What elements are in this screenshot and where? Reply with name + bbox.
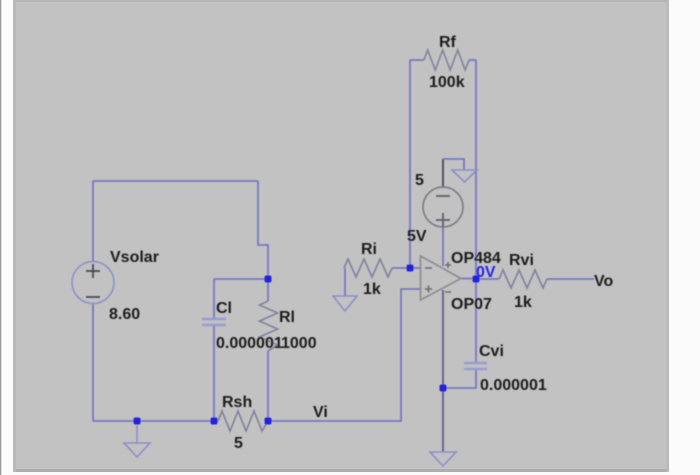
capacitor Cvi (464, 363, 487, 369)
wire: 5V source top to ground arm (443, 159, 464, 170)
op-amp U1 OP484/OP07 (421, 256, 462, 300)
svg-text:OP07: OP07 (451, 296, 492, 313)
wire: output node to Rvi left lead (476, 278, 499, 280)
resistor Rvi (499, 270, 547, 288)
ground at bottom rail left (124, 421, 150, 457)
ground at op-amp V- rail (430, 452, 456, 466)
wire: op-amp V- pin down to ground junction (442, 290, 444, 452)
wire: Cl top lead (213, 279, 215, 319)
svg-text:Rvi: Rvi (509, 252, 534, 269)
svg-text:Vo: Vo (594, 273, 613, 290)
svg-text:Vsolar: Vsolar (110, 249, 159, 266)
junction dot Rsh right / Rl bottom (265, 418, 272, 425)
svg-text:0.000001: 0.000001 (216, 335, 283, 352)
wire: output node down to Cvi top plate (475, 279, 477, 363)
wire: Ri right lead to inverting node (392, 267, 410, 269)
wire: top rail from Vsolar to right corner (93, 180, 258, 182)
resistor Rsh (218, 411, 268, 431)
wire: Cvi bottom lead to ground junction (443, 369, 476, 388)
svg-text:1k: 1k (363, 281, 381, 298)
wire: op-amp output to output node (461, 278, 476, 280)
svg-text:5: 5 (415, 172, 424, 189)
wire: Rl top lead (267, 279, 269, 301)
wire: node A horizontal link to Cl branch (214, 278, 268, 280)
wire: Cl bottom lead down to bottom rail (213, 325, 215, 421)
resistor Ri (344, 259, 392, 277)
svg-text:Vi: Vi (313, 404, 328, 421)
junction dot bottom-left ground node (134, 418, 141, 425)
dark left screen edge (0, 0, 1, 475)
wire: 5V source bottom lead to op-amp V+ pin (442, 227, 444, 266)
resistor Rl (260, 301, 278, 351)
svg-text:Rl: Rl (279, 309, 295, 326)
wire: Ri left lead to ground (344, 268, 346, 296)
svg-text:Ri: Ri (361, 241, 377, 258)
wire: Rf top right lead (469, 59, 476, 61)
wire: Rf right vertical down to output node (475, 60, 477, 279)
ground at 5V source top (452, 170, 477, 182)
voltage source Vsolar (72, 262, 114, 304)
resistor Rf (424, 50, 469, 70)
junction dot inverting input node (407, 265, 414, 272)
junction dot Cvi bottom ground node (440, 385, 447, 392)
wire: Vsolar bottom lead down to bottom rail (92, 303, 94, 421)
svg-text:8.60: 8.60 (109, 306, 140, 323)
capacitor Cl (202, 319, 226, 325)
svg-text:100k: 100k (429, 74, 465, 91)
wire: Rf left vertical down to inverting node (409, 60, 411, 268)
wire: 5V source top lead (dark) (442, 159, 444, 187)
wire: Vsolar top lead up to top rail (92, 181, 94, 262)
ground at Ri left (333, 296, 357, 311)
junction dot output node 0V (473, 276, 480, 283)
svg-text:5V: 5V (407, 228, 427, 245)
junction dot Cl bottom (211, 418, 218, 425)
wire: bottom rail left section (93, 420, 218, 422)
wire: Rl bottom lead (267, 351, 269, 421)
svg-text:0.000001: 0.000001 (480, 377, 547, 394)
svg-text:Rsh: Rsh (222, 394, 252, 411)
svg-text:1k: 1k (514, 294, 532, 311)
wire: right branch descending with jog to node A (258, 181, 268, 279)
wire: inverting node to op-amp minus input (410, 267, 420, 269)
wire: Rvi right lead to Vo (547, 278, 594, 280)
svg-text:Rf: Rf (439, 34, 457, 51)
svg-text:5: 5 (234, 435, 243, 452)
junction dot node A (Cl/Rl top) (265, 276, 272, 283)
svg-text:1000: 1000 (281, 335, 317, 352)
svg-text:Cvi: Cvi (479, 343, 504, 360)
svg-text:Cl: Cl (216, 300, 232, 317)
wire: bottom rail Vi net to op-amp non-inverting input (268, 289, 420, 421)
voltage source V5 (423, 187, 463, 227)
wire: Rf top left lead (410, 59, 424, 61)
